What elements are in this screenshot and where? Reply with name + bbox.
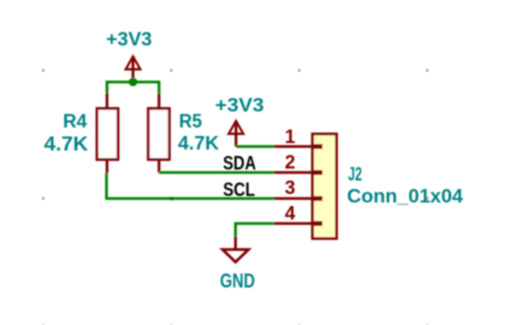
grid dots (decorative) [42, 69, 428, 325]
wire: +3V3 to J2 pin 1 [236, 145, 274, 148]
svg-text:4: 4 [285, 204, 296, 225]
pin 3 stub [313, 196, 323, 201]
connector J2 (Conn_01x04) [274, 134, 337, 239]
svg-text:4.7K: 4.7K [44, 134, 89, 156]
pin 4 stub [313, 221, 323, 226]
junction artifact on SCL wire at grid point [170, 197, 173, 200]
wire: J2 pin 4 to GND [236, 224, 275, 237]
power symbol +3V3 (top, above R4/R5) [126, 56, 141, 82]
pin 2 stub [313, 170, 323, 175]
svg-text:R5: R5 [179, 112, 202, 133]
junction: +3V3 node [129, 78, 138, 87]
svg-text:GND: GND [220, 271, 255, 293]
resistor R4 [97, 94, 118, 174]
pin 1 line [274, 145, 313, 148]
svg-text:3: 3 [285, 178, 296, 199]
svg-text:2: 2 [285, 153, 296, 174]
ground symbol GND [223, 237, 249, 263]
svg-text:SDA: SDA [223, 154, 256, 175]
svg-text:R4: R4 [63, 112, 87, 133]
pin 2 line [274, 171, 313, 174]
svg-text:+3V3: +3V3 [106, 30, 152, 51]
body [313, 134, 337, 239]
svg-text:J2: J2 [348, 165, 362, 186]
wire: SCL net (R4 bottom to J2 pin 3) [107, 173, 275, 199]
power symbol +3V3 (at J2 pin 1) [229, 121, 244, 147]
wire: +3V3 rail across R4/R5 tops [107, 82, 159, 94]
pin 3 line [274, 197, 313, 200]
resistor R5 [148, 94, 169, 173]
svg-text:SCL: SCL [223, 180, 255, 201]
pin 4 line [274, 222, 313, 225]
svg-text:1: 1 [285, 127, 296, 148]
svg-text:4.7K: 4.7K [178, 134, 219, 155]
wire: SDA net (R5 bottom to J2 pin 2) [159, 171, 274, 174]
svg-text:+3V3: +3V3 [215, 96, 264, 117]
svg-text:Conn_01x04: Conn_01x04 [347, 187, 463, 208]
pin 1 stub [313, 144, 323, 149]
